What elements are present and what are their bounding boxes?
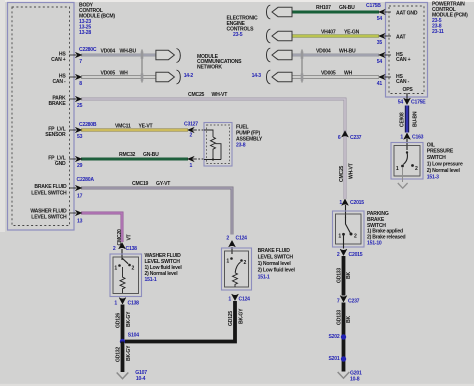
- label VD005 WH: [101, 71, 129, 77]
- svg-text:54: 54: [377, 16, 383, 22]
- vertical labels GD126 BK-GY: [115, 311, 132, 328]
- oil pressure switch label: [427, 142, 463, 180]
- svg-text:YE-GN: YE-GN: [344, 29, 360, 35]
- wire into parking brake switch: [345, 205, 347, 218]
- svg-text:C2015: C2015: [349, 252, 363, 258]
- svg-text:S202: S202: [329, 334, 340, 340]
- pin 2 / C124 labels: [226, 236, 247, 242]
- svg-text:CAN +: CAN +: [51, 57, 66, 63]
- washer switch contacts and lever: [114, 258, 134, 293]
- svg-text:BK: BK: [346, 316, 352, 323]
- BCM pin arrow FP_LVL GND: [76, 157, 82, 162]
- svg-text:C2280A: C2280A: [77, 177, 95, 183]
- OPS pin stub: [406, 93, 408, 99]
- svg-text:CE908: CE908: [399, 112, 405, 127]
- Row 2: wire VD005 WH (BCM side): [81, 75, 156, 78]
- svg-text:VD005: VD005: [321, 71, 336, 77]
- svg-text:GD126: GD126: [115, 313, 121, 328]
- svg-text:13-28: 13-28: [79, 30, 91, 36]
- wire into washer switch: [121, 249, 123, 260]
- svg-text:BU-BN: BU-BN: [413, 111, 419, 127]
- svg-text:RMC32: RMC32: [119, 152, 136, 158]
- connector C3127 arrow pin 1: [188, 157, 204, 169]
- pin 1 / C124 labels: [228, 297, 250, 303]
- washer fluid level switch box: [110, 254, 142, 297]
- PCM name label: [432, 1, 468, 35]
- svg-text:6: 6: [338, 135, 341, 141]
- svg-text:C2280B: C2280B: [79, 122, 97, 128]
- svg-text:17: 17: [77, 194, 83, 200]
- svg-text:WH: WH: [120, 71, 129, 77]
- connector C3127 arrow pin 2: [184, 121, 204, 138]
- svg-text:PRESSURE: PRESSURE: [427, 149, 454, 155]
- svg-text:WH: WH: [344, 71, 353, 77]
- BCM pin arrow BRAKE FLUID LEVEL SWITCH: [76, 186, 82, 191]
- BCM pin arrow FP_LVL SENSOR: [76, 128, 82, 133]
- svg-text:C163: C163: [412, 135, 424, 141]
- wire RMC32 GN-BU: [81, 158, 188, 161]
- brace left of VD005 right pentagon: [267, 70, 271, 84]
- svg-text:CMC25: CMC25: [339, 165, 345, 182]
- svg-text:CMC25: CMC25: [188, 92, 205, 98]
- wire VD004 WH-BU (BCM side): [81, 54, 156, 57]
- wire CMC19 GY-VT: [81, 188, 232, 235]
- washer switch label: [145, 253, 183, 283]
- pin 7 / C237 labels: [337, 298, 360, 304]
- vertical labels GD133 BK upper: [336, 268, 352, 283]
- parking brake switch box: [333, 211, 365, 247]
- wire GD126 BK-GY: [121, 305, 125, 342]
- connector C237 arrow on CMC25: [342, 131, 349, 137]
- label VD004 WH-BU right: [316, 49, 356, 55]
- BCM pin name FP_LVL SENSOR: [45, 127, 66, 138]
- parking brake switch label: [367, 211, 406, 247]
- connector C175E arrow: [404, 98, 411, 104]
- vertical labels CE908 BU-BN: [399, 111, 418, 127]
- svg-text:GN-BU: GN-BU: [339, 5, 355, 11]
- svg-text:C175E: C175E: [411, 100, 426, 106]
- brace right of VD004 pentagon: [177, 49, 181, 63]
- svg-text:54: 54: [398, 100, 404, 106]
- pin 6 / C237 labels: [338, 135, 362, 141]
- connector C2015 arrow bottom: [340, 249, 347, 255]
- svg-text:C138: C138: [128, 300, 140, 306]
- wire GD133 BK upper: [342, 256, 346, 296]
- label RMC32 GN-BU: [119, 152, 159, 158]
- pin 1 / C163 labels: [400, 135, 423, 141]
- svg-text:BK: BK: [346, 272, 352, 279]
- svg-text:2: 2: [226, 236, 229, 242]
- label VH407 YE-GN: [321, 29, 360, 35]
- svg-text:CMC19: CMC19: [132, 181, 149, 187]
- svg-text:GD125: GD125: [228, 311, 234, 326]
- svg-text:1: 1: [228, 297, 231, 303]
- fuel pump (FP) assembly box: [204, 123, 232, 167]
- splice S201: [329, 356, 347, 362]
- brace left of RH107 pentagon: [267, 5, 271, 19]
- svg-text:LEVEL SWITCH: LEVEL SWITCH: [31, 215, 67, 221]
- connector C124 arrow bottom: [232, 294, 239, 300]
- PCM pin name HS CAN -: [396, 74, 410, 85]
- svg-text:54: 54: [377, 59, 383, 65]
- module communications network label: [197, 54, 242, 70]
- svg-text:GD133: GD133: [336, 268, 342, 283]
- wire into brake fluid switch: [231, 247, 233, 254]
- svg-text:VD005: VD005: [101, 71, 116, 77]
- splice S104: [120, 333, 139, 345]
- twisted pair marker left: [141, 50, 144, 83]
- svg-text:2: 2: [354, 233, 357, 239]
- twisted pair marker right: [301, 50, 304, 83]
- BCM pin name FP_LVL GND: [48, 156, 66, 167]
- BCM pin name PARK BRAKE: [48, 96, 66, 107]
- svg-text:2: 2: [244, 260, 247, 266]
- svg-text:GN-BU: GN-BU: [143, 152, 159, 158]
- pin 1 / C2015 labels: [339, 200, 364, 206]
- svg-text:53: 53: [77, 134, 83, 140]
- BCM pin stubs: [69, 55, 75, 213]
- svg-text:C124: C124: [239, 297, 251, 303]
- parking brake switch contacts and lever: [338, 217, 357, 249]
- pin 54 / C175E labels: [398, 100, 427, 106]
- connector C138 arrow bottom: [119, 298, 126, 304]
- pin 1 / C138 labels: [114, 300, 139, 306]
- splice S202: [329, 334, 347, 340]
- svg-text:CAN -: CAN -: [396, 79, 410, 85]
- svg-text:VH407: VH407: [321, 29, 336, 35]
- BCM pin name HS CAN -: [52, 74, 66, 85]
- svg-text:10-4: 10-4: [136, 376, 146, 382]
- svg-text:29: 29: [77, 163, 83, 169]
- svg-text:BK-GY: BK-GY: [126, 345, 132, 361]
- svg-text:1: 1: [226, 259, 229, 265]
- body control module (BCM) box: [8, 3, 75, 231]
- BCM name label: [79, 3, 115, 37]
- PCM pin arrow AAT: [379, 34, 385, 39]
- brace left of VD004 right pentagon: [267, 48, 271, 62]
- svg-text:VD004: VD004: [101, 49, 116, 55]
- svg-text:1: 1: [396, 166, 399, 172]
- svg-text:VD004: VD004: [316, 49, 331, 55]
- svg-text:BRAKE: BRAKE: [48, 101, 66, 107]
- PCM pin arrow HS CAN +: [379, 53, 385, 58]
- vertical labels GD133 BK lower: [336, 310, 352, 325]
- fuel level sender resistor inside pump: [204, 130, 221, 161]
- off-page pentagon VH407: [272, 31, 292, 40]
- svg-text:25: 25: [77, 103, 83, 109]
- svg-text:OPS: OPS: [403, 87, 414, 93]
- wire CE908 BU-BN: [405, 106, 409, 133]
- label CMC25 WH-VT: [188, 92, 228, 98]
- svg-text:1) Normal level: 1) Normal level: [258, 261, 292, 267]
- PCM pin name HS CAN +: [396, 52, 411, 63]
- svg-text:C2015: C2015: [350, 200, 364, 206]
- off-page pentagon RH107: [272, 7, 292, 16]
- svg-text:GD132: GD132: [115, 347, 121, 362]
- svg-text:BK-GY: BK-GY: [239, 308, 245, 324]
- svg-text:LEVEL SWITCH: LEVEL SWITCH: [31, 190, 67, 196]
- svg-text:WH-VT: WH-VT: [348, 162, 354, 179]
- svg-text:23-8: 23-8: [236, 142, 246, 148]
- svg-text:CAN +: CAN +: [396, 57, 411, 63]
- BCM pin name WASHER FLUID LEVEL SWITCH: [30, 208, 67, 220]
- svg-text:C2280C: C2280C: [79, 47, 97, 53]
- BCM pin arrow HS CAN +: [76, 53, 82, 58]
- wire VD005 WH (PCM side): [292, 75, 379, 78]
- BCM pin name HS CAN +: [51, 52, 66, 63]
- wire GD133 BK lower: [342, 303, 346, 372]
- connector C163 arrow: [404, 133, 411, 139]
- svg-text:1) Low pressure: 1) Low pressure: [427, 162, 463, 168]
- svg-text:BRAKE FLUID: BRAKE FLUID: [258, 248, 291, 254]
- vertical labels GD125 BK-GY: [228, 308, 245, 326]
- connector C138 arrow top: [119, 243, 126, 249]
- off-page pentagon VD004 left: [156, 50, 175, 59]
- svg-text:1: 1: [114, 300, 117, 306]
- svg-text:7: 7: [337, 298, 340, 304]
- powertrain control module (PCM) box: [386, 3, 428, 98]
- label CMC19 GY-VT: [132, 181, 171, 187]
- svg-text:VMC11: VMC11: [115, 124, 131, 130]
- vertical labels GD132 BK-GY: [115, 345, 132, 362]
- svg-text:1: 1: [338, 233, 341, 239]
- svg-text:GND: GND: [55, 161, 66, 167]
- pin 2 / C2015 labels: [337, 252, 363, 258]
- brace left of VH407 pentagon: [267, 29, 271, 43]
- svg-text:AAT: AAT: [396, 34, 407, 40]
- svg-text:7: 7: [79, 59, 82, 65]
- connector C237 arrow bottom: [340, 296, 347, 302]
- svg-text:41: 41: [377, 81, 383, 87]
- svg-text:GY-VT: GY-VT: [156, 181, 171, 187]
- BCM pin name BRAKE FLUID LEVEL SWITCH: [31, 184, 67, 196]
- connector C124 arrow top: [229, 241, 236, 247]
- svg-text:AAT GND: AAT GND: [396, 10, 418, 16]
- brake fluid level switch box: [222, 248, 252, 290]
- wire CMC25 WH-VT horizontal + vertical: [81, 99, 345, 199]
- svg-text:C3127: C3127: [184, 121, 198, 127]
- svg-text:LEVEL SWITCH: LEVEL SWITCH: [258, 255, 294, 261]
- wire GD132 BK-GY: [121, 342, 125, 373]
- electronic engine controls label: [227, 16, 258, 38]
- wire RH107 GN-BU: [292, 11, 379, 14]
- svg-text:151-1: 151-1: [145, 277, 157, 283]
- svg-text:SENSOR: SENSOR: [45, 132, 66, 138]
- off-page pentagon VD005 left: [156, 72, 175, 81]
- off-page pentagon VD005 right: [272, 72, 292, 81]
- svg-text:1: 1: [114, 266, 117, 272]
- svg-text:WH-VT: WH-VT: [212, 92, 229, 98]
- BCM pin arrow PARK BRAKE: [76, 97, 82, 102]
- ground G107: [117, 370, 148, 382]
- svg-text:YE-VT: YE-VT: [139, 124, 154, 130]
- svg-text:SWITCH: SWITCH: [427, 155, 446, 161]
- svg-text:S201: S201: [329, 356, 340, 362]
- label VMC11 YE-VT: [115, 124, 154, 130]
- svg-text:C175B: C175B: [366, 3, 381, 9]
- svg-text:C237: C237: [348, 298, 360, 304]
- svg-text:RH107: RH107: [316, 5, 331, 11]
- svg-text:14-2: 14-2: [184, 73, 194, 79]
- pin 2 / C138 labels: [113, 246, 137, 252]
- svg-text:GD133: GD133: [336, 310, 342, 325]
- svg-text:C124: C124: [236, 236, 248, 242]
- wire VH407 YE-GN: [292, 35, 379, 38]
- svg-text:2: 2: [132, 266, 135, 272]
- svg-text:13: 13: [77, 218, 83, 224]
- oil pressure switch case ground: [398, 167, 408, 188]
- svg-text:1: 1: [190, 163, 193, 169]
- wire VMC11 YE-VT: [81, 129, 188, 132]
- vertical labels CMC25 WH-VT: [339, 162, 354, 182]
- wire GD125 BK-GY to splice S104: [125, 301, 235, 342]
- oil pressure switch contacts and lever: [396, 151, 418, 172]
- svg-text:NETWORK: NETWORK: [197, 64, 222, 70]
- svg-text:OIL: OIL: [427, 142, 435, 148]
- svg-text:35: 35: [377, 40, 383, 46]
- svg-text:2: 2: [337, 252, 340, 258]
- ground G201: [338, 371, 362, 383]
- brace right of VD005 pentagon: [177, 70, 181, 84]
- svg-text:2: 2: [190, 133, 193, 139]
- svg-text:1: 1: [400, 135, 403, 141]
- wire into oil pressure switch: [406, 139, 408, 150]
- connector C2015 arrow top: [342, 199, 349, 205]
- svg-text:14-3: 14-3: [252, 73, 262, 79]
- svg-text:23-11: 23-11: [432, 29, 444, 35]
- svg-text:S104: S104: [128, 333, 139, 339]
- wire VD004 WH-BU (PCM side): [292, 54, 379, 57]
- svg-text:2: 2: [415, 166, 418, 172]
- svg-text:23-5: 23-5: [233, 32, 243, 38]
- svg-text:WH-BU: WH-BU: [120, 49, 137, 55]
- svg-text:2) Low fluid level: 2) Low fluid level: [258, 268, 296, 274]
- svg-text:151-10: 151-10: [367, 241, 382, 247]
- svg-text:2) Normal level: 2) Normal level: [427, 168, 461, 174]
- fuel pump label: [236, 124, 263, 148]
- svg-text:8: 8: [79, 81, 82, 87]
- svg-text:1: 1: [339, 200, 342, 206]
- label VD004 WH-BU: [101, 49, 137, 55]
- svg-text:C237: C237: [350, 135, 362, 141]
- svg-text:BK-GY: BK-GY: [126, 311, 132, 327]
- label VD005 WH right: [321, 71, 353, 77]
- wire CMC20 VT: [81, 213, 122, 242]
- brake switch contacts and lever: [226, 257, 246, 287]
- brake switch label: [258, 248, 296, 280]
- BCM pin arrow HS CAN -: [76, 75, 82, 80]
- vertical labels CMC20 VT: [117, 229, 133, 246]
- svg-text:C138: C138: [126, 246, 138, 252]
- oil pressure switch box: [391, 143, 423, 180]
- off-page pentagon VD004 right: [272, 50, 292, 59]
- svg-text:BRAKE FLUID: BRAKE FLUID: [34, 184, 67, 190]
- svg-text:WASHER FLUID: WASHER FLUID: [30, 208, 67, 214]
- svg-text:151-3: 151-3: [427, 174, 439, 180]
- svg-text:WH-BU: WH-BU: [339, 49, 356, 55]
- PCM pin arrow HS CAN -: [379, 75, 385, 80]
- label RH107 GN-BU: [316, 5, 355, 11]
- svg-text:10-8: 10-8: [350, 376, 360, 382]
- svg-text:CAN -: CAN -: [52, 79, 66, 85]
- BCM pin arrow WASHER FLUID LEVEL SWITCH: [76, 211, 82, 216]
- svg-text:151-1: 151-1: [258, 275, 270, 281]
- PCM pin stubs: [385, 12, 391, 77]
- PCM pin arrow AAT GND: [379, 10, 385, 15]
- svg-text:2: 2: [113, 246, 116, 252]
